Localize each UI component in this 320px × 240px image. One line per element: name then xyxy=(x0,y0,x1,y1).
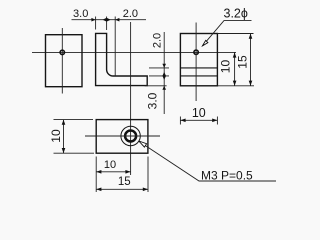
svg-text:10: 10 xyxy=(192,106,206,120)
svg-text:10: 10 xyxy=(219,60,233,74)
svg-text:2.0: 2.0 xyxy=(152,33,164,48)
svg-text:2.0: 2.0 xyxy=(123,8,138,20)
svg-text:15: 15 xyxy=(236,55,250,69)
svg-text:3.0: 3.0 xyxy=(146,92,160,109)
svg-text:15: 15 xyxy=(118,176,131,188)
svg-text:M3 P=0.5: M3 P=0.5 xyxy=(201,169,253,183)
svg-text:10: 10 xyxy=(49,129,63,143)
svg-text:3.2ϕ: 3.2ϕ xyxy=(224,6,248,20)
svg-text:3.0: 3.0 xyxy=(73,8,88,20)
svg-text:10: 10 xyxy=(104,159,116,171)
